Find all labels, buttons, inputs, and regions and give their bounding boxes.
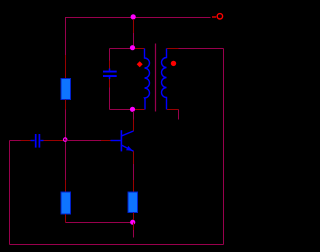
node junction ring at base cross <box>63 138 66 141</box>
wire base rail vertical to R2 <box>65 141 67 193</box>
transformer core <box>155 44 157 112</box>
resistor R2 <box>61 192 71 214</box>
inductor L2 secondary coil of transformer <box>162 49 167 110</box>
node junction dot D4 <box>130 220 135 225</box>
phase dot secondary (red circle) <box>171 61 176 66</box>
wire stub below D4 (dead end) <box>133 223 135 238</box>
wire bottom rail <box>10 244 224 246</box>
wire C1 top lead <box>109 49 111 69</box>
wire drop D1 to D2 <box>133 19 135 46</box>
capacitor C1 (tank, horizontal plates) <box>103 69 117 80</box>
phase dot primary (red diamond) <box>137 61 143 67</box>
wire right rail <box>223 49 225 245</box>
wire base segment cap to junction <box>44 140 65 142</box>
node junction dot D2 (tank top) <box>130 45 135 50</box>
wire secondary bottom stub (dead end) <box>167 110 179 120</box>
capacitor C2 (base coupling, vertical plates) <box>31 134 44 148</box>
wire C1 bottom lead <box>109 79 111 110</box>
transistor Q1 (NPN) <box>111 130 134 151</box>
wire R3 bottom lead to D4 <box>133 213 135 221</box>
wire stub D2 to primary coil <box>135 48 145 50</box>
resistor R1 <box>61 79 71 100</box>
wire top right horizontal (secondary top to right rail) <box>167 48 224 50</box>
terminal output ring <box>217 14 222 19</box>
wire collector lead <box>133 111 135 131</box>
wire left drop from top rail to R1 <box>65 17 67 79</box>
node junction dot D3 (tank bottom) <box>130 107 135 112</box>
terminal output stub <box>212 16 216 18</box>
wire R2 bottom lead and corner <box>66 214 131 223</box>
wire left rail <box>9 141 11 245</box>
wire tank top left to C1 <box>110 48 131 50</box>
wire stub primary bottom to D3 <box>135 109 145 111</box>
wire tank bottom left to D3 <box>110 109 131 111</box>
wire base segment junction to transistor <box>67 140 111 142</box>
wire emitter lead <box>133 151 135 192</box>
wire R1 bottom lead <box>65 100 67 141</box>
node junction dot D1 (top rail) <box>131 14 136 19</box>
inductor L1 primary coil of transformer <box>145 49 150 110</box>
wire left feedback corner <box>10 140 31 142</box>
wire top rail <box>66 17 211 19</box>
resistor R3 (emitter) <box>128 192 138 213</box>
